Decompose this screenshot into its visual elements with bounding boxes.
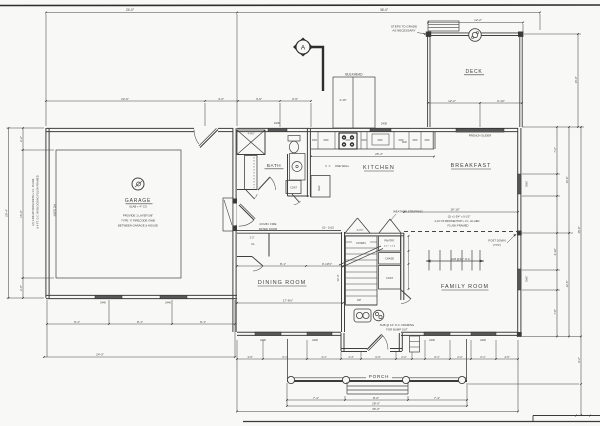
svg-text:26′-4″: 26′-4″ [375, 152, 383, 156]
garage overall dim 24'-0 [44, 356, 235, 358]
svg-text:4′-0½″: 4′-0½″ [248, 132, 255, 136]
deck left rail [427, 33, 429, 127]
svg-text:REF: REF [317, 185, 321, 191]
svg-text:SUB @ 12″ O.C. FRAMING: SUB @ 12″ O.C. FRAMING [380, 323, 414, 327]
cabinet dividers [317, 132, 319, 149]
right ext y336 [522, 336, 581, 338]
bottom ext x345 [344, 396, 346, 400]
garage south wall [46, 294, 237, 296]
french slider [456, 129, 504, 132]
ext line x540 [539, 14, 541, 30]
svg-text:15′-0″: 15′-0″ [574, 77, 578, 84]
right dim chain A [556, 127, 558, 337]
svg-text:4′-6″: 4′-6″ [247, 355, 252, 359]
bath wall y154.5 [237, 154, 265, 156]
right dim deck 15'-0 [577, 34, 579, 127]
porch post 1 [287, 376, 294, 383]
svg-text:7′-4″: 7′-4″ [434, 396, 440, 400]
coat door stairs [401, 290, 412, 300]
svg-text:2′-2″: 2′-2″ [401, 355, 406, 359]
svg-text:24′-0″: 24′-0″ [126, 8, 135, 12]
counter end cap [432, 132, 434, 149]
garage ext x47 [46, 300, 48, 357]
garage side door leaf [200, 130, 218, 148]
closet door small leaf [246, 190, 255, 199]
svg-text:2442: 2442 [525, 276, 529, 282]
house north wall [237, 127, 518, 129]
dining closet door leaf [252, 257, 263, 267]
sheet bottom border line [243, 421, 600, 423]
svg-text:2446: 2446 [312, 338, 318, 342]
svg-text:2442: 2442 [525, 181, 529, 187]
svg-text:FAMILY ROOM: FAMILY ROOM [441, 284, 489, 290]
fire door jamb bottom [233, 226, 237, 232]
stair treads [346, 241, 378, 243]
kitchen dim 26'-4 [311, 156, 434, 158]
ext line x205 [204, 103, 206, 126]
svg-text:PORCH: PORCH [369, 374, 390, 379]
south ext ticks [262, 340, 264, 359]
svg-text:2′-2″: 2′-2″ [19, 136, 23, 142]
svg-text:SLAB + 4″ CO: SLAB + 4″ CO [129, 205, 148, 209]
svg-text:4′-10″: 4′-10″ [553, 249, 557, 256]
porch steps [347, 385, 408, 387]
svg-text:9′-1″: 9′-1″ [200, 320, 206, 324]
svg-text:6′-2″: 6′-2″ [577, 357, 581, 362]
garage north wall east part [218, 127, 233, 129]
svg-text:(TYP.): (TYP.) [493, 243, 501, 247]
svg-text:(NOTE DH): (NOTE DH) [54, 204, 57, 217]
svg-text:WEATHER STRIPPING: WEATHER STRIPPING [393, 210, 423, 214]
svg-text:CHASE: CHASE [385, 257, 394, 261]
house west wall [232, 128, 234, 332]
shower X box [237, 130, 265, 155]
left ext y128 [7, 127, 45, 129]
deck corner post right [518, 32, 523, 37]
svg-text:KITCHEN: KITCHEN [363, 165, 395, 171]
svg-text:2430: 2430 [381, 122, 388, 126]
left ext y150 [21, 149, 54, 151]
bottom ext x287 [286, 383, 288, 406]
counter front edge [311, 148, 434, 150]
garage slab rect [56, 150, 181, 278]
upper cab dashed [312, 139, 317, 141]
svg-text:20′-4″: 20′-4″ [4, 209, 8, 217]
svg-text:2′-1½ x 2′-0: 2′-1½ x 2′-0 [384, 244, 396, 248]
bottom ext x467 [466, 383, 468, 406]
garage window 2446 1 [95, 295, 122, 298]
svg-text:TYPE ‘X’ FIRECODE GWB: TYPE ‘X’ FIRECODE GWB [121, 219, 155, 223]
fridge [311, 176, 330, 198]
bottom ext x408 [407, 396, 409, 400]
svg-text:16′-0″: 16′-0″ [19, 210, 23, 218]
right ext y34 [524, 33, 581, 35]
window 2430 kitchen [370, 128, 391, 131]
deck symbol circle [469, 29, 482, 42]
svg-text:2446: 2446 [429, 338, 435, 342]
svg-text:2′-0″: 2′-0″ [19, 285, 23, 291]
ext line x280 [279, 103, 281, 127]
svg-text:2x8 @16″ O.C.: 2x8 @16″ O.C. [451, 257, 471, 261]
ext line x480 to slider [479, 103, 481, 127]
stair top wall [345, 232, 404, 234]
left dim chain inner [22, 128, 24, 298]
right ext y270 [522, 269, 560, 271]
porch dim 28'-0 [287, 405, 467, 407]
svg-text:8′-1″: 8′-1″ [280, 262, 286, 266]
svg-text:3′-6″: 3′-6″ [256, 97, 262, 101]
garage window 2446 2 [160, 295, 187, 298]
sink [372, 134, 389, 145]
house width dim 36'-0 [237, 411, 518, 413]
svg-text:POST DOWN: POST DOWN [488, 239, 505, 243]
section cut line [310, 47, 323, 91]
deck top rail [428, 32, 523, 34]
ext line left x46 [45, 14, 47, 126]
svg-text:24′-0″: 24′-0″ [96, 353, 104, 357]
closet side dim [408, 236, 410, 289]
window 2442 family [518, 269, 521, 290]
deck steps to grade [428, 21, 459, 31]
fire door landing [223, 198, 233, 231]
svg-text:& 4 FT. O.C. W/ BLOCKING FLUSH: & 4 FT. O.C. W/ BLOCKING FLUSH FRAMED [36, 175, 40, 228]
svg-text:7′-8″: 7′-8″ [553, 309, 557, 314]
svg-text:GARAGE: GARAGE [125, 198, 151, 204]
svg-text:36′-0″: 36′-0″ [372, 407, 380, 411]
label UP [352, 297, 366, 303]
chase closet [379, 253, 401, 265]
window 2446 dining 2 [307, 332, 332, 335]
svg-text:UP: UP [357, 298, 361, 302]
garage bottom dim 9-1/8-1/9-1 [47, 323, 235, 325]
svg-text:16′-10″: 16′-10″ [450, 208, 459, 212]
svg-text:12′-2″: 12′-2″ [448, 99, 456, 103]
svg-text:FLUSH FRAMED: FLUSH FRAMED [448, 224, 469, 228]
window 2446 family 1 [424, 332, 450, 335]
kitchen west wall [306, 128, 308, 197]
left ext y278 [21, 277, 54, 279]
garage ext x172 [171, 300, 173, 324]
stove [339, 133, 357, 149]
garage ext x109 [108, 300, 110, 324]
deck corner post left [426, 32, 431, 37]
window 2446 dining 1 [255, 332, 281, 335]
window 2430 bath [268, 128, 287, 131]
garage side door arc [194, 130, 199, 144]
svg-text:2446: 2446 [480, 338, 486, 342]
svg-text:3′-6″: 3′-6″ [292, 97, 298, 101]
fire door jamb top [233, 199, 237, 204]
svg-text:2446: 2446 [165, 301, 171, 305]
detector symbols [354, 309, 371, 322]
svg-text:36′-0″: 36′-0″ [380, 8, 389, 12]
garage ext x235 [234, 300, 236, 357]
family west wall [400, 233, 402, 300]
svg-text:6′-1″: 6′-1″ [480, 355, 485, 359]
svg-text:12′-4″: 12′-4″ [336, 274, 340, 281]
left ext y298 [7, 297, 45, 299]
svg-text:20 MIN. FIRE: 20 MIN. FIRE [260, 222, 277, 226]
garage floor drain symbol [132, 178, 144, 190]
bottom ext x341 x361 [340, 352, 342, 359]
svg-text:4′-1½″: 4′-1½″ [357, 228, 364, 232]
svg-text:(2) +1-3/4″ x 9-1/2″: (2) +1-3/4″ x 9-1/2″ [448, 215, 471, 219]
svg-text:DECK: DECK [465, 69, 482, 75]
fire door leaf hall [239, 205, 254, 220]
svg-text:15′-8″: 15′-8″ [565, 177, 569, 184]
svg-text:6′-0″: 6′-0″ [375, 355, 380, 359]
garage north wall west part [46, 127, 194, 129]
svg-text:DW: DW [402, 140, 407, 144]
svg-text:7′-4″: 7′-4″ [313, 396, 319, 400]
section marker A diamond [293, 38, 313, 57]
svg-text:2-10 OF BROKENTOP L.V.L. GLUED: 2-10 OF BROKENTOP L.V.L. GLUED [435, 219, 480, 223]
bath wall x287.5 [287, 154, 289, 196]
stair box [346, 236, 378, 305]
svg-text:PROVIDE 1 LAYER 5/8″: PROVIDE 1 LAYER 5/8″ [123, 214, 153, 218]
svg-text:AS NECESSARY: AS NECESSARY [392, 29, 415, 33]
porch post 4 [458, 376, 465, 383]
coat closet stairs [379, 266, 401, 290]
svg-text:6′-1″: 6′-1″ [434, 355, 439, 359]
bath door arc [270, 177, 276, 190]
stair break line [339, 246, 381, 265]
ext line deck right x523 [522, 24, 524, 33]
svg-text:FRENCH SLIDER: FRENCH SLIDER [469, 134, 492, 138]
svg-text:(2) 1-3/4x18 SPANCRETE L.V.L.: (2) 1-3/4x18 SPANCRETE L.V.L. PLANK [31, 178, 35, 225]
svg-text:COAT: COAT [290, 187, 297, 190]
svg-text:4′-4″: 4′-4″ [348, 355, 353, 359]
deck interior dim 12'-2 / 9'-10 [428, 102, 522, 104]
entry bump east wall [398, 333, 400, 351]
svg-text:3′-10½″: 3′-10½″ [322, 262, 332, 266]
svg-text:BREAKFAST: BREAKFAST [451, 163, 492, 169]
svg-text:FOR BUMP OUT: FOR BUMP OUT [386, 328, 408, 332]
dining closet [268, 233, 270, 257]
svg-text:BATH: BATH [267, 163, 281, 168]
svg-text:2446: 2446 [100, 301, 106, 305]
bath wall x265 [264, 130, 266, 155]
svg-text:2430: 2430 [274, 121, 281, 125]
section marker A circle [296, 40, 310, 54]
title block edge line [533, 415, 600, 417]
window 2442 breakfast [518, 174, 521, 194]
overall width dim 24'-0 / 36'-0 [46, 12, 540, 14]
svg-text:PANTRY: PANTRY [384, 239, 395, 243]
linen closet [245, 156, 258, 190]
svg-text:DINING ROOM: DINING ROOM [258, 280, 306, 286]
right dim chain B [568, 127, 570, 337]
bath door leaf [258, 177, 270, 190]
ext line x311 [310, 103, 312, 127]
entry bump west wall [340, 333, 342, 351]
sheet top border [0, 4, 600, 7]
right ext y196 [522, 195, 560, 197]
svg-text:8′-1″: 8′-1″ [137, 320, 143, 324]
svg-text:2′-2″: 2′-2″ [457, 355, 462, 359]
svg-text:4′-6″: 4′-6″ [504, 355, 509, 359]
svg-text:COAT: COAT [386, 276, 393, 280]
house south wall east part [401, 331, 518, 333]
svg-text:12′-4″: 12′-4″ [565, 281, 569, 288]
stair bottom wall [346, 304, 378, 306]
wall y189.5 [237, 189, 257, 191]
breakfast dim 16'-10 [404, 211, 518, 213]
svg-text:12′-2″: 12′-2″ [474, 18, 482, 22]
entry bump south wall west [341, 348, 367, 350]
deck width dim 12'-2 [428, 22, 523, 24]
porch right post line [466, 339, 468, 382]
porch post 2 [342, 376, 349, 383]
svg-text:17′-6½″: 17′-6½″ [283, 299, 293, 303]
garage subdim 24'-6 / 4'-0 / 3'-6 / 3'-6 [46, 100, 311, 102]
svg-text:9′-10″: 9′-10″ [497, 99, 505, 103]
toilet [288, 136, 300, 142]
post mid east wall [517, 231, 522, 236]
window 2446 family 2 [471, 332, 496, 335]
svg-text:28′-0″: 28′-0″ [372, 402, 380, 406]
svg-text:CL: CL [251, 242, 255, 246]
svg-text:DOWN: DOWN [356, 241, 365, 245]
dining dim 8'-1 / 3'-10 [237, 265, 343, 267]
svg-text:A: A [301, 45, 306, 52]
label DOWN [352, 240, 370, 245]
right ext y174 [522, 173, 560, 175]
right ext y384 [468, 383, 579, 385]
svg-text:24′-6″: 24′-6″ [121, 97, 129, 101]
svg-text:2446: 2446 [260, 338, 266, 342]
svg-text:BULKHEAD: BULKHEAD [345, 73, 363, 77]
svg-text:8′-0″: 8′-0″ [373, 396, 379, 400]
left dim chain outer 20'-4 [8, 128, 10, 298]
fire door arc hall [239, 220, 254, 226]
svg-text:9′-1″: 9′-1″ [74, 320, 80, 324]
svg-text:4′-1″: 4′-1″ [321, 355, 326, 359]
fire door opening [233, 204, 237, 226]
svg-text:6′-1″: 6′-1″ [282, 355, 287, 359]
south wall dim chain [237, 358, 518, 360]
vanity [290, 154, 306, 181]
entry door arc [382, 334, 388, 349]
coat closet bath [286, 181, 301, 194]
garage west wall [45, 128, 47, 298]
post southeast corner [517, 332, 522, 337]
pantry closet [379, 236, 401, 251]
right ext y127 [522, 126, 584, 128]
svg-text:26′-8″: 26′-8″ [577, 227, 581, 234]
right ext y233 [522, 232, 573, 234]
svg-text:7′-2″: 7′-2″ [553, 147, 557, 152]
beam dashed line [404, 231, 518, 233]
porch left post line [287, 339, 289, 382]
hall dining wall [237, 229, 341, 231]
svg-text:BETWEEN GARAGE & HOUSE: BETWEEN GARAGE & HOUSE [118, 224, 158, 228]
porch rail bold [287, 380, 467, 382]
coat door leaf [292, 194, 300, 203]
svg-text:ONE WALL: ONE WALL [335, 164, 350, 168]
ext line x237 [236, 14, 238, 126]
svg-text:2′-10″: 2′-10″ [339, 98, 346, 102]
entry bump south wall east [390, 348, 402, 350]
joist symbol [426, 260, 484, 262]
house south wall west part [237, 331, 341, 333]
pantry bifold doors [345, 218, 358, 233]
stair west wall [341, 232, 343, 332]
svg-text:4′-0″: 4′-0″ [218, 97, 224, 101]
dining dim 17'-6 [237, 302, 343, 304]
porch rail thin [287, 377, 467, 379]
bottom ext x237 [236, 340, 238, 412]
house east wall [517, 128, 519, 337]
hall wall y196 [288, 195, 309, 197]
porch dim 7-4/8-0/7-4 [287, 399, 467, 401]
right ext y290 [522, 289, 560, 291]
bottom ext x518 [517, 340, 519, 412]
svg-text:(2) - 2x10: (2) - 2x10 [322, 226, 334, 230]
note one wall [325, 165, 331, 167]
room label PORCH [366, 373, 392, 380]
entry door leaf [367, 335, 382, 350]
entry side box [410, 336, 420, 352]
deck right rail [519, 33, 521, 127]
right dim chain C [580, 127, 582, 415]
porch post 3 [402, 376, 409, 383]
svg-text:2′-2″: 2′-2″ [250, 237, 255, 240]
bulkhead box [333, 77, 375, 128]
